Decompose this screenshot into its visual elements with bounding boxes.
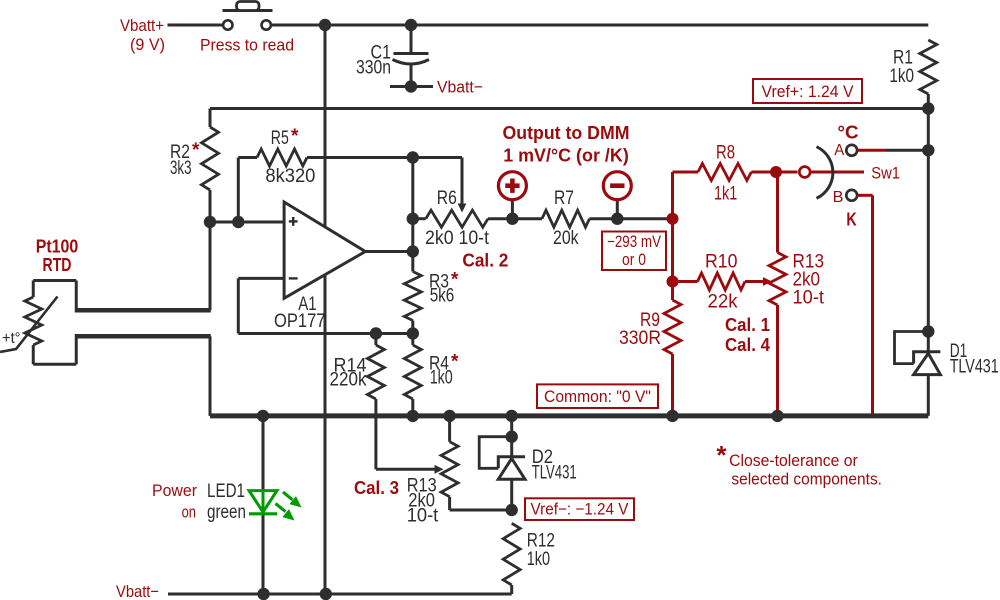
resistor R10 — [698, 273, 746, 290]
wire common rail — [210, 413, 928, 418]
D2 feedback loop — [479, 437, 512, 469]
RTD arrow diagonal — [0, 297, 58, 353]
node common at R9 — [666, 410, 678, 422]
switch contact A circle — [846, 145, 857, 156]
resistor R4 lead top — [411, 334, 414, 346]
node bottom rail at LED — [257, 588, 269, 600]
resistor R2 lead top — [209, 109, 212, 128]
wire R6 wiper vertical — [461, 158, 464, 205]
svg-text:Close-tolerance or: Close-tolerance or — [729, 451, 858, 470]
op-amp minus sign — [289, 277, 298, 279]
svg-text:Vref−: −1.24 V: Vref−: −1.24 V — [531, 501, 629, 519]
wire R13 Cal3 bottom lead — [448, 497, 451, 510]
wire right vertical Vref+ to D1 — [927, 109, 930, 416]
wire R10 left lead — [673, 280, 698, 283]
wire op-amp output — [365, 250, 413, 253]
wire Vbatt+ top rail left segment — [168, 24, 224, 27]
node red at R10 row — [667, 276, 679, 288]
wire R9 bottom lead — [671, 354, 674, 416]
svg-text:1k0: 1k0 — [430, 368, 453, 389]
LED arrow 1 — [283, 492, 293, 500]
wire R6 wiper horizontal — [413, 156, 462, 159]
wire top rail from button to R1 — [271, 24, 929, 27]
wire RTD lower arm — [76, 334, 211, 339]
wire R5 left lead — [238, 156, 257, 159]
wire R5 left vertical — [237, 158, 240, 223]
svg-text:20k: 20k — [553, 228, 579, 249]
wire R2 bottom to +input node — [209, 190, 212, 222]
wire feedback vertical — [237, 278, 240, 333]
LED triangle — [249, 491, 277, 512]
wire R8 left lead — [673, 171, 699, 174]
svg-text:8k320: 8k320 — [265, 166, 315, 187]
svg-text:1k0: 1k0 — [527, 549, 550, 570]
node D2 loop junction — [506, 431, 518, 443]
wire RTD upper arm to +input — [209, 222, 212, 310]
D2 cathode bar — [498, 457, 525, 469]
svg-text:2k0 10-t: 2k0 10-t — [425, 228, 490, 249]
resistor R3 — [404, 272, 421, 321]
svg-text:Cal. 4: Cal. 4 — [725, 335, 770, 355]
wire R1 bottom lead — [927, 94, 930, 109]
RTD outline bottom — [33, 363, 76, 366]
svg-text:330R: 330R — [619, 328, 661, 349]
node red at output row — [667, 213, 679, 225]
capacitor C1 plate top — [394, 52, 429, 55]
node minus terminal junction — [611, 213, 623, 225]
D1 cathode bar — [914, 352, 941, 364]
svg-text:TLV431: TLV431 — [532, 463, 577, 484]
node R8 right junction — [770, 166, 782, 178]
node R14 top — [370, 327, 382, 339]
svg-text:3k3: 3k3 — [170, 158, 192, 179]
wire contact B vertical to common — [871, 195, 874, 416]
svg-text:22k: 22k — [708, 292, 738, 313]
wire Vref+ rail — [210, 107, 928, 110]
capacitor C1 lead top — [410, 25, 413, 52]
wire Vbatt- bottom rail — [168, 593, 512, 596]
svg-text:330n: 330n — [356, 58, 391, 79]
svg-text:Vref+: 1.24 V: Vref+: 1.24 V — [762, 83, 854, 101]
pushbutton cap — [237, 2, 260, 11]
wire Vbatt- stub at C1 — [390, 85, 433, 88]
svg-text:K: K — [846, 209, 857, 230]
R13 right wiper arrowhead — [763, 277, 772, 286]
wire minus terminal to divider — [617, 217, 672, 220]
svg-text:or 0: or 0 — [622, 251, 646, 269]
wire R12 bottom lead — [510, 585, 513, 594]
svg-text:°C: °C — [838, 122, 859, 143]
switch pole stub — [810, 171, 864, 174]
wire contact A dark part — [885, 149, 928, 152]
label box Vref+ 1.24V — [753, 79, 862, 103]
D1 feedback loop — [895, 332, 929, 364]
svg-text:10-t: 10-t — [407, 506, 439, 527]
node Vref- junction — [506, 504, 518, 516]
D1 triangle — [914, 353, 941, 374]
wire R14 bottom vertical — [374, 399, 377, 469]
switch arc — [817, 147, 833, 199]
resistor R4 — [404, 345, 421, 399]
resistor R5 — [257, 149, 307, 166]
wire output net vertical — [411, 158, 414, 272]
wire R13 Cal3 top lead — [448, 416, 451, 442]
switch contact B circle — [846, 190, 857, 201]
svg-text:R10: R10 — [705, 252, 738, 273]
svg-text:Common: "0 V": Common: "0 V" — [544, 388, 651, 406]
capacitor C1 plate bottom curved — [393, 60, 430, 65]
svg-text:R7: R7 — [554, 188, 574, 209]
label box Vref- -1.24V — [525, 498, 634, 520]
svg-text:1 mV/°C (or /K): 1 mV/°C (or /K) — [503, 146, 629, 166]
wire R14 to Cal3 wiper — [376, 468, 436, 471]
svg-text:on: on — [182, 503, 196, 522]
svg-text:+t°: +t° — [2, 330, 21, 347]
svg-text:1k0: 1k0 — [889, 66, 914, 87]
node bottom rail at x=325 — [320, 588, 332, 600]
svg-text:green: green — [207, 502, 246, 523]
svg-text:1k1: 1k1 — [714, 184, 737, 205]
svg-text:*: * — [716, 440, 727, 470]
node D1 loop junction — [922, 325, 934, 337]
wire R7 left lead — [512, 217, 542, 220]
LED cathode bar — [249, 512, 277, 515]
wire noninverting input — [210, 221, 284, 224]
wire RTD upper arm — [76, 308, 211, 313]
D2 triangle — [498, 459, 525, 480]
node R6 left junction — [407, 213, 419, 225]
terminal minus stub — [616, 200, 619, 219]
wire R7 right lead — [590, 217, 618, 220]
RTD lead bottom — [32, 345, 35, 364]
RTD outline top — [33, 279, 76, 282]
svg-text:RTD: RTD — [43, 255, 72, 275]
svg-text:selected components.: selected components. — [731, 470, 882, 489]
wire R10 right lead — [745, 280, 764, 283]
pushbutton plate — [223, 9, 273, 12]
node common at R4 — [407, 410, 419, 422]
capacitor C1 lead bottom — [410, 64, 413, 87]
wire Vbatt- vertical x=325 — [324, 25, 327, 594]
wire contact A red part — [857, 149, 885, 152]
svg-text:(9 V): (9 V) — [130, 35, 165, 54]
resistor R8 — [698, 164, 751, 181]
resistor R12 — [503, 523, 520, 585]
terminal minus bar — [610, 183, 624, 188]
op-amp plus sign — [289, 220, 298, 222]
svg-text:10-t: 10-t — [793, 288, 825, 309]
terminal plus stub — [511, 200, 514, 219]
node R2/RTD/+input — [204, 216, 216, 228]
svg-text:Cal. 1: Cal. 1 — [725, 315, 770, 335]
svg-text:R6: R6 — [437, 188, 457, 209]
svg-text:Vbatt−: Vbatt− — [116, 582, 159, 600]
svg-text:B: B — [833, 189, 844, 206]
wire R3 bottom lead — [411, 321, 414, 334]
pushbutton contact right — [262, 20, 271, 29]
node R5 right junction — [407, 151, 419, 163]
svg-text:Vbatt−: Vbatt− — [437, 78, 483, 97]
svg-text:*: * — [192, 140, 200, 161]
op-amp A1 body — [284, 202, 365, 298]
wire R5 right lead — [307, 156, 413, 159]
LED inner lead — [262, 491, 265, 512]
node C1 bottom terminal — [405, 80, 417, 92]
wire inverting input — [238, 277, 284, 280]
terminal plus cross — [505, 183, 519, 188]
node common at LED — [257, 410, 269, 422]
svg-text:TLV431: TLV431 — [950, 357, 999, 378]
node common at R13 right — [771, 410, 783, 422]
svg-text:A: A — [834, 142, 844, 159]
label box Common 0V — [537, 384, 658, 408]
node Vref+ at R1 — [922, 102, 934, 114]
node plus terminal junction — [506, 213, 518, 225]
resistor R1 — [920, 40, 937, 94]
terminal minus circle — [603, 172, 631, 200]
node R3/R4 junction — [407, 327, 419, 339]
wire LED vertical — [262, 416, 265, 594]
svg-text:*: * — [291, 126, 299, 147]
R13 Cal3 wiper arrowhead — [435, 465, 444, 474]
LED arrow 2 — [276, 504, 286, 512]
RTD lead top — [32, 281, 35, 298]
wire feedback bottom — [238, 332, 412, 335]
svg-text:220k: 220k — [330, 370, 367, 391]
svg-text:R5: R5 — [271, 128, 289, 149]
terminal plus circle — [498, 172, 526, 200]
RTD resistor element — [25, 297, 42, 345]
svg-text:Power: Power — [152, 481, 197, 500]
svg-text:Pt100: Pt100 — [36, 237, 79, 257]
resistor R13 Cal3 — [441, 442, 458, 497]
resistor R14 lead top — [374, 334, 377, 346]
resistor R13 right pot — [769, 253, 786, 306]
wire R13b bottom lead — [776, 305, 779, 416]
svg-text:Press to read: Press to read — [200, 36, 294, 55]
node junction top rail at C1 — [405, 19, 417, 31]
pushbutton contact left — [223, 20, 232, 29]
RTD outline right upper — [75, 281, 78, 313]
label box -293mV or 0 — [602, 232, 666, 271]
resistor R6 — [426, 210, 488, 227]
wire R6 right lead — [488, 217, 512, 220]
node common at R13 Cal3 — [443, 410, 455, 422]
node junction top rail at x=325 — [319, 19, 331, 31]
wire R13b top lead — [776, 172, 779, 253]
resistor R14 — [367, 345, 384, 399]
wire D2 vertical — [510, 416, 513, 510]
wire R4 bottom lead — [411, 399, 414, 416]
wire RTD lower arm to common — [209, 336, 212, 416]
wire R6 left lead — [413, 217, 426, 220]
node common at D2 — [506, 410, 518, 422]
resistor R9 — [664, 300, 681, 354]
RTD outline right lower — [75, 334, 78, 364]
svg-text:OP177: OP177 — [274, 311, 326, 332]
resistor R2 — [202, 127, 219, 190]
svg-text:Vbatt+: Vbatt+ — [120, 16, 164, 35]
node R5 left at +input — [232, 216, 244, 228]
svg-text:5k6: 5k6 — [430, 286, 455, 307]
svg-text:Cal. 3: Cal. 3 — [354, 478, 399, 498]
wire R8 right lead — [751, 171, 797, 174]
svg-text:Sw1: Sw1 — [871, 165, 900, 183]
svg-text:Output to DMM: Output to DMM — [503, 123, 630, 143]
R6 wiper arrowhead — [458, 204, 467, 213]
wire R13 Cal3 to Vref- node — [450, 509, 512, 512]
wire red divider vertical — [671, 172, 674, 300]
node output junction — [407, 245, 419, 257]
switch pole contact — [799, 167, 810, 178]
node A wire at right vertical — [922, 144, 934, 156]
svg-text:LED1: LED1 — [207, 481, 245, 502]
resistor R7 — [542, 210, 590, 227]
svg-text:Cal. 2: Cal. 2 — [462, 251, 508, 271]
svg-text:R8: R8 — [716, 143, 735, 164]
svg-text:−293 mV: −293 mV — [607, 233, 661, 251]
wire contact B horizontal — [857, 194, 872, 197]
